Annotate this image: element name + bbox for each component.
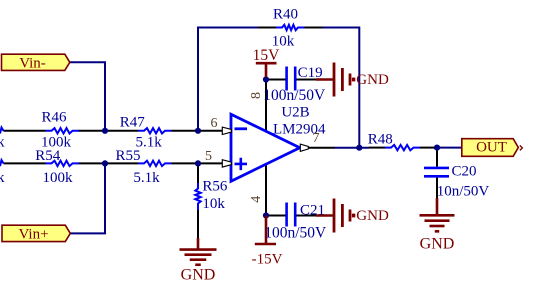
svg-text:R47: R47	[120, 114, 146, 130]
svg-text:R55: R55	[115, 148, 140, 164]
svg-text:10k: 10k	[202, 196, 225, 212]
svg-text:C21: C21	[300, 202, 325, 218]
svg-text:k: k	[0, 170, 5, 186]
svg-text:C19: C19	[298, 65, 323, 81]
svg-text:15V: 15V	[253, 47, 281, 64]
svg-text:5: 5	[205, 149, 212, 164]
svg-text:100n/50V: 100n/50V	[264, 225, 327, 242]
svg-text:C20: C20	[452, 164, 477, 180]
svg-text:8: 8	[249, 92, 264, 99]
svg-text:U2B: U2B	[281, 105, 309, 121]
svg-text:R48: R48	[368, 131, 393, 147]
svg-text:7: 7	[313, 131, 320, 146]
svg-text:GND: GND	[181, 266, 216, 283]
svg-text:R56: R56	[202, 179, 228, 195]
svg-text:Vin+: Vin+	[18, 226, 48, 242]
svg-text:5.1k: 5.1k	[133, 170, 160, 186]
svg-text:R46: R46	[41, 109, 67, 125]
svg-text:4: 4	[249, 196, 264, 203]
svg-text:GND: GND	[420, 236, 455, 253]
svg-text:10n/50V: 10n/50V	[437, 184, 490, 200]
svg-text:R54: R54	[35, 148, 61, 164]
svg-text:GND: GND	[356, 72, 389, 88]
svg-text:R40: R40	[273, 7, 298, 23]
svg-text:100n/50V: 100n/50V	[263, 87, 326, 104]
svg-text:Vin-: Vin-	[19, 55, 46, 71]
svg-text:k: k	[0, 135, 5, 151]
svg-text:100k: 100k	[43, 170, 74, 186]
svg-text:OUT: OUT	[476, 140, 507, 156]
svg-text:-15V: -15V	[252, 251, 283, 267]
svg-text:6: 6	[211, 116, 218, 131]
svg-text:GND: GND	[356, 208, 389, 224]
